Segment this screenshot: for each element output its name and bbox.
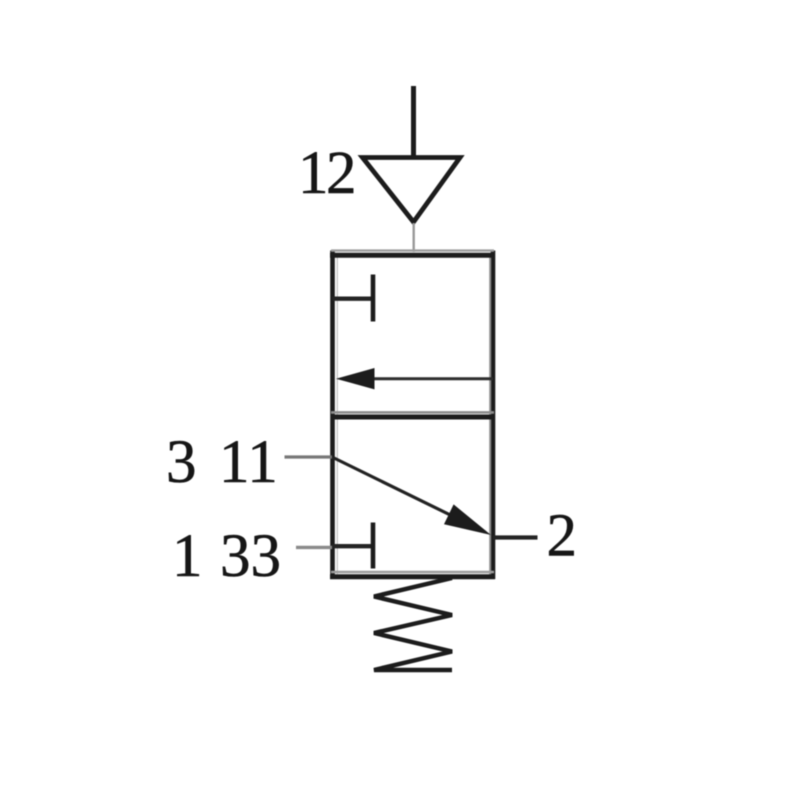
svg-text:1: 1 [298,140,329,207]
port line 1/33 (left lower, outside body) [296,546,332,549]
port line 3/11 (left upper) [285,455,333,458]
wire: triangle apex to valve body [413,223,415,252]
svg-text:2: 2 [547,503,578,570]
flow path arrow (top position, pointing left) [336,368,493,389]
valve body: right border [490,251,493,580]
label 3 [166,429,197,496]
label 11 [219,429,278,496]
label 2 [547,503,578,570]
divider between valve positions [331,412,495,417]
label 1 [172,523,203,590]
svg-text:33: 33 [220,523,281,590]
plugged port tick (bottom position) [332,523,373,569]
svg-text:2: 2 [326,140,357,207]
label 33 [220,523,281,590]
port line 2 (right) [493,535,538,539]
svg-text:1: 1 [172,523,203,590]
svg-text:3: 3 [166,429,197,496]
svg-text:11: 11 [219,429,278,496]
valve body: bottom edge [330,572,495,577]
valve body: left border [333,251,338,580]
pilot pressure triangle (pneumatic pilot symbol) [363,158,461,223]
pilot line 12 (vertical wire to triangle) [411,86,416,159]
return spring [374,578,452,670]
valve body: top edge [330,251,495,256]
flow path diagonal arrow (bottom position, port 3/11 to port 2) [333,458,491,536]
label 12 (pilot port) [298,140,357,207]
plugged port tick (top position) [332,275,373,322]
